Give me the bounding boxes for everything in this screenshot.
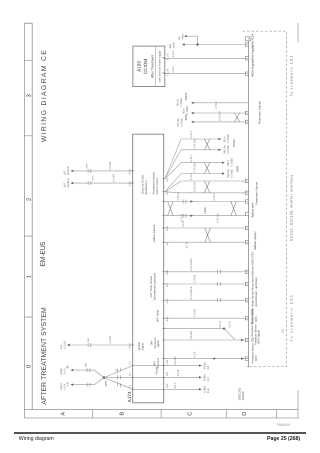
svg-text:1.5 GN: 1.5 GN bbox=[109, 336, 112, 344]
svg-text:0.75/18: 0.75/18 bbox=[181, 118, 184, 127]
svg-text:0.5 B: 0.5 B bbox=[229, 321, 232, 327]
arrow up ignition bbox=[67, 344, 70, 346]
svg-text:2.5 R: 2.5 R bbox=[63, 384, 66, 390]
svg-text:0/26: 0/26 bbox=[166, 359, 169, 364]
supply stub wire t2 bbox=[71, 182, 133, 184]
ignition connector ticks bbox=[88, 343, 91, 347]
svg-text:0.75/18: 0.75/18 bbox=[227, 145, 230, 154]
svg-text:0.5 GR: 0.5 GR bbox=[190, 331, 193, 339]
arrow up power a bbox=[182, 43, 185, 45]
svg-text:A/16: A/16 bbox=[129, 169, 132, 175]
UGA arrow g bbox=[191, 200, 194, 202]
arrow down a bbox=[219, 138, 222, 140]
svg-text:EM-EU5: EM-EU5 bbox=[40, 241, 47, 266]
wire A193 supply w2 bbox=[165, 57, 249, 59]
svg-text:downstream: downstream bbox=[254, 290, 258, 306]
svg-text:0.75 Y: 0.75 Y bbox=[190, 130, 193, 138]
frame bottom edge partial right bbox=[297, 23, 299, 42]
wire A193 GND drop w1 bbox=[183, 44, 249, 46]
svg-text:1.5 GR: 1.5 GR bbox=[113, 174, 116, 182]
CAN wire b bbox=[181, 149, 221, 151]
footer rule bbox=[14, 432, 306, 433]
sensor wire m bbox=[164, 299, 249, 301]
svg-text:Adblue tank: Adblue tank bbox=[251, 202, 255, 217]
power fan dot bbox=[103, 376, 106, 379]
svg-text:0/24: 0/24 bbox=[166, 298, 169, 303]
power stub v1 bbox=[71, 370, 104, 378]
svg-text:0/32: 0/32 bbox=[166, 226, 169, 231]
svg-text:0.75 W: 0.75 W bbox=[194, 309, 197, 318]
svg-text:XC1/B: XC1/B bbox=[167, 69, 170, 76]
svg-text:Inlet Sensors Power supply: Inlet Sensors Power supply bbox=[158, 50, 161, 82]
arrow down r3 bbox=[199, 388, 202, 390]
svg-text:0.75 W: 0.75 W bbox=[194, 274, 197, 283]
frame letter band inner line bbox=[24, 409, 298, 411]
twisted pair UGA lower bbox=[231, 202, 236, 216]
svg-text:KC312: KC312 bbox=[241, 391, 245, 400]
svg-text:Ax/12 B: Ax/12 B bbox=[67, 166, 70, 175]
svg-text:0.75 Y: 0.75 Y bbox=[215, 101, 218, 109]
svg-text:DPF signal: DPF signal bbox=[257, 330, 261, 344]
svg-text:0/3: 0/3 bbox=[129, 384, 132, 388]
CAN wire c bbox=[181, 162, 224, 164]
twisted pair a b bbox=[204, 139, 209, 150]
wire A193 supply w3 bbox=[165, 73, 249, 75]
svg-text:1.5 GN: 1.5 GN bbox=[63, 341, 66, 349]
header band divider ticks bbox=[24, 61, 32, 317]
t connector ticks bbox=[88, 169, 91, 185]
stub wire s3 bbox=[192, 121, 249, 123]
svg-text:1.5 B: 1.5 B bbox=[186, 242, 189, 248]
svg-text:B: B bbox=[120, 412, 126, 416]
svg-text:XM/3: XM/3 bbox=[92, 175, 95, 181]
stub wire TE231 s1 bbox=[192, 102, 249, 104]
svg-text:XB/4: XB/4 bbox=[85, 362, 88, 368]
sensor wire n bbox=[164, 317, 249, 319]
document number 7088440 bbox=[276, 423, 290, 427]
fan to pin u3 bbox=[104, 378, 133, 390]
CAN wire e bbox=[181, 180, 249, 182]
svg-text:To schematic CE1: To schematic CE1 bbox=[289, 56, 293, 97]
svg-text:A: A bbox=[60, 412, 66, 416]
inline arrow q bbox=[214, 357, 217, 359]
svg-text:TE231: TE231 bbox=[232, 139, 236, 148]
svg-text:2:8: 2:8 bbox=[207, 365, 210, 369]
svg-text:CCIOM: CCIOM bbox=[143, 59, 148, 74]
svg-text:MCM Supply: MCM Supply bbox=[251, 45, 255, 62]
svg-text:0/23: 0/23 bbox=[166, 316, 169, 321]
svg-text:A193: A193 bbox=[137, 61, 142, 72]
A193 pin tick 2 bbox=[164, 57, 166, 59]
svg-text:3: 3 bbox=[26, 94, 33, 97]
svg-text:0/7: 0/7 bbox=[166, 241, 169, 245]
svg-text:Ax/14 B: Ax/14 B bbox=[67, 178, 70, 187]
arrow up s2 bbox=[191, 112, 194, 114]
UGA connector ticks g bbox=[183, 200, 186, 218]
svg-text:Signal: Signal bbox=[141, 343, 144, 351]
adblue wire j bbox=[164, 241, 249, 243]
pressure wire p bbox=[164, 339, 249, 341]
arrow into pin q bbox=[241, 357, 244, 359]
sensor wire l bbox=[164, 283, 249, 285]
svg-text:2.5 R: 2.5 R bbox=[63, 368, 66, 374]
svg-text:CAN H CAN L: CAN H CAN L bbox=[156, 177, 159, 195]
svg-text:After Treatment: After Treatment bbox=[151, 55, 155, 78]
svg-text:UGA: UGA bbox=[203, 207, 207, 213]
interface top pin box a bbox=[246, 37, 251, 41]
pressure wire o bbox=[164, 328, 224, 330]
power stub v2 bbox=[71, 378, 104, 385]
svg-text:D: D bbox=[242, 412, 248, 416]
svg-text:1.5 R: 1.5 R bbox=[182, 221, 185, 227]
svg-text:DPF: DPF bbox=[254, 316, 258, 322]
svg-text:2:9: 2:9 bbox=[207, 377, 210, 381]
svg-text:0.75 GNYE: 0.75 GNYE bbox=[190, 258, 193, 271]
r pin ticks bottom edge bbox=[132, 366, 165, 390]
svg-text:0/28: 0/28 bbox=[166, 269, 169, 274]
svg-text:0.75 Y: 0.75 Y bbox=[190, 154, 193, 162]
dashed schematic boundary bbox=[243, 31, 287, 367]
svg-text:0.75 Y: 0.75 Y bbox=[213, 193, 216, 201]
svg-text:0.5 B: 0.5 B bbox=[172, 66, 175, 72]
svg-text:DPF: DPF bbox=[254, 355, 258, 361]
svg-text:KC312, GIC126, Muffler Interfa: KC312, GIC126, Muffler Interface bbox=[289, 175, 293, 241]
frame right cap bbox=[24, 22, 32, 24]
svg-text:0/1: 0/1 bbox=[129, 360, 132, 364]
crossing wire r2 bbox=[133, 376, 201, 378]
svg-text:1.5 OR: 1.5 OR bbox=[109, 162, 112, 170]
UGA pin tick g bbox=[163, 201, 165, 203]
svg-text:0/2: 0/2 bbox=[129, 372, 132, 376]
svg-text:Powertrain Subnet: Powertrain Subnet bbox=[255, 182, 259, 205]
fan connector ticks bbox=[118, 368, 121, 388]
CAN wire a bbox=[181, 138, 221, 140]
svg-text:spare: spare bbox=[104, 380, 107, 387]
svg-text:0.75 GN: 0.75 GN bbox=[219, 111, 222, 121]
junction dot w1 bbox=[196, 43, 198, 45]
fan to pin u1 bbox=[104, 366, 133, 378]
adblue wire i bbox=[164, 227, 249, 229]
svg-text:XB/1: XB/1 bbox=[87, 337, 90, 343]
UGA wire h bbox=[164, 215, 249, 217]
svg-text:0/11: 0/11 bbox=[166, 282, 169, 287]
svg-text:0.75 GN: 0.75 GN bbox=[217, 213, 220, 223]
fan slants from pin b bbox=[165, 174, 181, 193]
footer right Page 25 (268) bbox=[267, 436, 300, 442]
stub wire s2 bbox=[192, 112, 249, 114]
svg-text:2.5: 2.5 bbox=[281, 329, 285, 333]
sensor wire k bbox=[164, 271, 249, 273]
arrow up s3 bbox=[191, 121, 194, 123]
svg-text:A/5: A/5 bbox=[166, 191, 169, 195]
ECU box A193 CCIOM bbox=[133, 46, 165, 86]
svg-text:2: 2 bbox=[26, 198, 33, 201]
svg-text:0.75/18: 0.75/18 bbox=[186, 105, 189, 114]
arrow into pin p bbox=[241, 339, 244, 341]
svg-text:0.75/18: 0.75/18 bbox=[227, 134, 230, 143]
junction dot pressure bbox=[223, 328, 225, 330]
svg-text:WIRING DIAGRAM CE: WIRING DIAGRAM CE bbox=[41, 50, 48, 142]
fan to pin u2 bbox=[104, 376, 133, 378]
arrow down d bbox=[222, 172, 225, 174]
svg-text:0.5 Y: 0.5 Y bbox=[174, 382, 177, 388]
frame bottom edge partial left bbox=[297, 390, 299, 418]
A193 inner separator line bbox=[154, 46, 156, 86]
svg-text:0/25: 0/25 bbox=[166, 383, 169, 388]
interface bus line bbox=[248, 36, 250, 367]
svg-text:+24V: +24V bbox=[173, 42, 176, 48]
svg-text:C/16: C/16 bbox=[129, 181, 132, 187]
svg-text:0.75/18: 0.75/18 bbox=[231, 157, 234, 166]
svg-text:X1: X1 bbox=[115, 368, 118, 371]
svg-text:XC1/B: XC1/B bbox=[167, 53, 170, 60]
arrow down r1 bbox=[199, 364, 202, 366]
UGA pin tick h bbox=[163, 215, 165, 217]
wire jog to power symbol bbox=[185, 36, 198, 44]
frame header band inner line bbox=[31, 23, 33, 410]
svg-text:0.5 GN: 0.5 GN bbox=[174, 356, 177, 364]
svg-text:AFTER TREATMENT SYSTEM: AFTER TREATMENT SYSTEM bbox=[41, 307, 48, 405]
svg-text:signal: signal bbox=[157, 340, 160, 347]
ignition stub wire bbox=[68, 344, 133, 346]
svg-text:0.75 Y: 0.75 Y bbox=[190, 172, 193, 180]
arrow up t1 bbox=[71, 170, 74, 172]
svg-text:1: 1 bbox=[27, 275, 33, 278]
svg-text:C: C bbox=[188, 412, 194, 416]
adblue pin tick j bbox=[163, 241, 165, 243]
svg-text:TE231: TE231 bbox=[184, 92, 188, 101]
svg-text:2:10: 2:10 bbox=[207, 388, 210, 393]
t pin ticks top edge bbox=[132, 171, 134, 183]
svg-text:0.75 GNYE: 0.75 GNYE bbox=[190, 286, 193, 299]
svg-text:0.5 R: 0.5 R bbox=[172, 51, 175, 57]
arrow down r2 bbox=[199, 376, 202, 378]
twisted pair c d bbox=[204, 163, 209, 174]
svg-text:Adblue Injector: Adblue Injector bbox=[153, 224, 156, 242]
sensor connector ticks k l m bbox=[218, 270, 221, 302]
letter band divider ticks bbox=[93, 410, 277, 419]
pressure pin ticks bbox=[163, 329, 165, 359]
svg-text:XM/2: XM/2 bbox=[86, 163, 89, 169]
CAN wire f bbox=[181, 192, 249, 194]
svg-text:0.5 W: 0.5 W bbox=[177, 369, 180, 376]
twisted pair s2 s3 bbox=[234, 113, 239, 122]
svg-text:DPF Temp: DPF Temp bbox=[157, 309, 160, 322]
svg-text:0: 0 bbox=[26, 365, 33, 368]
svg-text:EMS: EMS bbox=[235, 166, 239, 172]
footer left Wiring diagram bbox=[19, 436, 54, 442]
svg-text:EMS: EMS bbox=[184, 114, 188, 120]
frame top edge bbox=[24, 23, 26, 418]
svg-text:0.75 GN: 0.75 GN bbox=[194, 139, 197, 149]
A193 pin tick 1 bbox=[164, 73, 166, 75]
svg-text:0.75/18: 0.75/18 bbox=[231, 169, 234, 178]
twisted pair adblue bbox=[205, 228, 210, 242]
supply stub wire t1 bbox=[71, 170, 133, 172]
arrow up v2 bbox=[71, 384, 74, 386]
svg-text:0.75 R: 0.75 R bbox=[177, 193, 180, 201]
svg-text:Powertrain Subnet: Powertrain Subnet bbox=[258, 101, 262, 124]
arrow up s1 bbox=[191, 102, 194, 104]
svg-text:A/2: A/2 bbox=[166, 177, 169, 181]
fan pin tick a bbox=[163, 178, 165, 180]
twisted pair UGA upper bbox=[168, 202, 173, 216]
svg-text:Backbone 2: Backbone 2 bbox=[145, 180, 148, 195]
sensor pin ticks bbox=[163, 272, 165, 318]
fan slants from pin a bbox=[165, 139, 181, 179]
arrow down c bbox=[222, 162, 225, 164]
twisted pair e f bbox=[204, 181, 209, 193]
adblue pin tick i bbox=[163, 227, 165, 229]
svg-text:Adblue Injector: Adblue Injector bbox=[253, 231, 257, 250]
svg-text:Downstream Upstream: Downstream Upstream bbox=[154, 272, 157, 300]
v connector ticks bbox=[87, 368, 90, 387]
ignition pin tick bbox=[132, 344, 134, 346]
svg-text:A/30: A/30 bbox=[129, 343, 132, 349]
CAN wire d bbox=[181, 173, 224, 175]
arrow up v1 bbox=[71, 369, 74, 371]
svg-text:0.5 R: 0.5 R bbox=[219, 321, 222, 327]
svg-text:Pressure: Pressure bbox=[157, 357, 160, 368]
crossing wire r1 bbox=[133, 365, 201, 367]
svg-text:Sensor GND (TE): Sensor GND (TE) bbox=[251, 252, 255, 274]
svg-text:upstream: upstream bbox=[254, 277, 258, 289]
crossing wire r3 bbox=[133, 388, 201, 390]
interface pin boxes bbox=[245, 43, 248, 361]
arrow up t2 bbox=[71, 182, 74, 184]
svg-text:0.75 GN: 0.75 GN bbox=[194, 182, 197, 192]
svg-text:To schematic CE1: To schematic CE1 bbox=[289, 295, 293, 341]
pressure wire q bbox=[164, 358, 249, 360]
svg-text:0.75 GN: 0.75 GN bbox=[194, 163, 197, 173]
svg-text:A174: A174 bbox=[127, 391, 132, 402]
UGA wire g bbox=[164, 201, 249, 203]
arrow down b bbox=[219, 149, 222, 151]
arrow up power b bbox=[184, 35, 187, 37]
svg-text:0/27: 0/27 bbox=[166, 371, 169, 376]
frame left edge bbox=[24, 417, 298, 419]
UGA arrow h bbox=[191, 215, 194, 217]
svg-text:MCM Supply: MCM Supply bbox=[251, 60, 255, 77]
svg-text:+24V: +24V bbox=[182, 34, 185, 40]
pressure branch slant bbox=[224, 329, 235, 340]
svg-text:l: l bbox=[242, 193, 245, 194]
fan pin tick b bbox=[163, 191, 165, 193]
svg-text:0.5 B: 0.5 B bbox=[194, 351, 197, 357]
ECU box A174 bbox=[133, 134, 164, 403]
svg-text:0.75/18: 0.75/18 bbox=[180, 98, 183, 107]
